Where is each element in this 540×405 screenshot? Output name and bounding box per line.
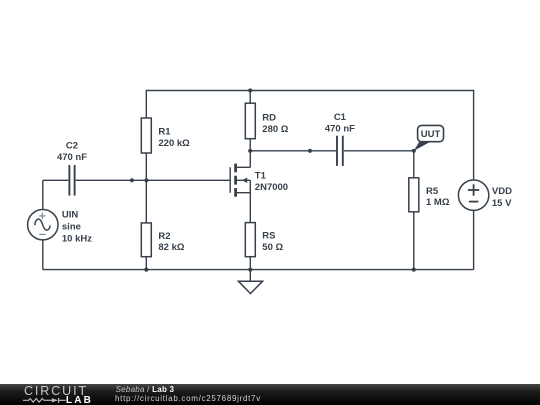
- svg-text:http://circuitlab.com/c257689j: http://circuitlab.com/c257689jrdt7v: [115, 394, 261, 403]
- svg-text:10 kHz: 10 kHz: [62, 234, 92, 245]
- svg-text:82 kΩ: 82 kΩ: [158, 242, 184, 253]
- svg-text:1 MΩ: 1 MΩ: [426, 197, 450, 208]
- svg-text:15 V: 15 V: [492, 198, 512, 209]
- svg-text:LAB: LAB: [66, 395, 93, 405]
- svg-text:50 Ω: 50 Ω: [262, 242, 283, 253]
- svg-text:VDD: VDD: [492, 186, 512, 197]
- svg-text:sine: sine: [62, 222, 81, 233]
- svg-text:T1: T1: [255, 170, 267, 181]
- svg-text:R2: R2: [158, 231, 170, 242]
- svg-text:470 nF: 470 nF: [57, 152, 87, 163]
- svg-text:Sebaba / Lab 3: Sebaba / Lab 3: [116, 385, 175, 394]
- svg-text:470 nF: 470 nF: [325, 124, 355, 135]
- svg-text:UIN: UIN: [62, 210, 79, 221]
- svg-text:R1: R1: [158, 127, 171, 138]
- svg-text:RD: RD: [262, 112, 276, 123]
- svg-text:280 Ω: 280 Ω: [262, 124, 288, 135]
- svg-text:2N7000: 2N7000: [255, 182, 288, 193]
- svg-text:220 kΩ: 220 kΩ: [158, 138, 190, 149]
- svg-text:RS: RS: [262, 231, 275, 242]
- svg-text:R5: R5: [426, 186, 439, 197]
- svg-text:C2: C2: [66, 140, 78, 151]
- svg-text:C1: C1: [334, 112, 347, 123]
- svg-text:UUT: UUT: [421, 129, 441, 140]
